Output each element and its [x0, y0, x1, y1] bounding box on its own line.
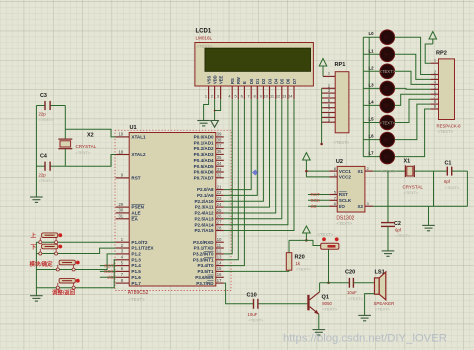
wire X1 right drop [433, 171, 435, 206]
svg-text:https://blog.csdn.net/DIY_lOVE: https://blog.csdn.net/DIY_lOVER [283, 333, 447, 345]
pin 24 P2.3/A11 U1 [216, 206, 224, 208]
power arrow RP1 [319, 59, 327, 67]
svg-text:<TEXT>: <TEXT> [438, 129, 454, 134]
pin 14 P3.4/T0 U1 [216, 265, 224, 267]
wire R20 bottom lead [288, 270, 290, 271]
svg-text:P0.4/AD4: P0.4/AD4 [194, 158, 214, 163]
pin 33 P0.6/AD6 U1 [216, 171, 224, 173]
svg-text:X2: X2 [87, 132, 94, 138]
wire U2 VCC stem [305, 160, 307, 177]
wire rail to ground [428, 206, 430, 225]
ground C2 [382, 251, 395, 256]
wire to VCC1 [306, 170, 329, 172]
wire button UP to P1.0 [36, 241, 115, 243]
svg-text:1: 1 [328, 71, 330, 76]
svg-text:15: 15 [217, 266, 222, 271]
svg-text:31: 31 [118, 214, 123, 219]
pin 13 P3.3/INT1 U1 [216, 259, 224, 261]
junction VEE-VDD [214, 110, 216, 112]
pin 5 RP2 [430, 88, 438, 90]
svg-text:P0.2/AD2: P0.2/AD2 [194, 146, 214, 151]
pin 37 P0.2/AD2 U1 [216, 148, 224, 150]
svg-text:<TEXT>: <TEXT> [348, 296, 364, 301]
svg-text:LM016L: LM016L [196, 35, 213, 40]
svg-text:6pf: 6pf [444, 179, 451, 184]
wire arrow stem R20 [305, 233, 307, 240]
LED L4 [363, 104, 380, 106]
svg-text:XTAL1: XTAL1 [131, 135, 146, 140]
svg-text:38: 38 [217, 138, 222, 143]
svg-text:L6: L6 [369, 134, 375, 139]
wire LCD D0 to P2.0 [224, 99, 251, 189]
LED L2 [363, 70, 380, 72]
pin 8 D1 LCD1 [256, 86, 258, 99]
svg-text:D5: D5 [280, 78, 285, 84]
wire L4 to RP2 pin 6 [395, 94, 431, 105]
wire crystal bottom [64, 149, 66, 167]
dashed selection box around U1 [115, 130, 231, 290]
svg-text:P3.0/RXD: P3.0/RXD [193, 240, 214, 245]
LED L3 [363, 87, 380, 89]
power arrow R20 [303, 226, 311, 233]
wire C3/C4 left bus [35, 106, 37, 198]
wire C20 to LS1 [353, 282, 374, 284]
pin 8 P1.7 U1 [116, 282, 130, 284]
svg-text:10uF: 10uF [347, 290, 357, 295]
svg-text:22: 22 [217, 190, 222, 195]
svg-text:P3.4/T0: P3.4/T0 [198, 263, 215, 268]
overline pin label [204, 251, 214, 253]
svg-text:<TEXT>: <TEXT> [39, 178, 55, 183]
pin 2 RP1 [322, 87, 336, 89]
pin 8 VCC1 U2 [329, 170, 337, 172]
svg-text:P3.7/RD: P3.7/RD [196, 281, 214, 286]
pin 1 RP1 [323, 75, 335, 77]
overline pin label [207, 274, 213, 276]
pin 19 XTAL1 U1 [116, 136, 130, 138]
pin 18 XTAL2 U1 [116, 154, 130, 156]
LCD screen [205, 48, 311, 71]
pin 26 P2.5/A13 U1 [216, 218, 224, 220]
svg-text:35: 35 [217, 155, 222, 160]
svg-text:<TEXT>: <TEXT> [128, 297, 145, 302]
pin 32 P0.7/AD7 U1 [216, 177, 224, 179]
wire L0 to RP2 pin 2 [395, 37, 431, 74]
svg-text:RP2: RP2 [436, 51, 447, 57]
pin 13 D6 LCD1 [287, 86, 289, 99]
pin 9 RP1 [322, 121, 336, 123]
svg-text:13: 13 [217, 255, 222, 260]
pin 10 D3 LCD1 [269, 86, 271, 99]
svg-text:<TEXT>: <TEXT> [76, 150, 92, 155]
svg-text:14: 14 [217, 260, 222, 265]
svg-text:C20: C20 [345, 270, 355, 276]
pin 12 D5 LCD1 [281, 86, 283, 99]
wire button DOWN to P1.1 [36, 248, 115, 253]
pin 34 P0.5/AD5 U1 [216, 165, 224, 167]
svg-text:39: 39 [217, 132, 222, 137]
svg-text:P3.6/WR: P3.6/WR [195, 275, 214, 280]
svg-text:EA: EA [131, 216, 138, 221]
wire LCD E to U1 [224, 99, 245, 265]
svg-text:P1.0/T2: P1.0/T2 [131, 240, 148, 245]
pin 30 ALE U1 [116, 212, 130, 214]
pin 38 P0.1/AD1 U1 [216, 142, 224, 144]
ground LS1 [358, 315, 371, 320]
pin 8 RP1 [322, 116, 336, 118]
ground Q1 [313, 330, 326, 335]
svg-text:P0.6/AD6: P0.6/AD6 [194, 170, 214, 175]
svg-text:23: 23 [217, 196, 222, 201]
svg-text:33: 33 [217, 167, 222, 172]
junction U2 VCC [305, 170, 308, 173]
svg-text:P1.3: P1.3 [131, 257, 141, 262]
pin 7 RP2 [430, 98, 438, 100]
svg-text:ALE: ALE [131, 211, 140, 216]
capacitor C1 [446, 167, 448, 176]
svg-text:8: 8 [254, 93, 256, 98]
pin 28 P2.7/A15 U1 [216, 230, 224, 232]
ground X1 rail [422, 225, 435, 230]
svg-text:模块/确定: 模块/确定 [30, 260, 54, 268]
pin 6 RP1 [322, 107, 336, 109]
svg-text:调整/返回: 调整/返回 [52, 289, 76, 297]
wire to VCC2 [306, 176, 329, 178]
svg-text:VCC2: VCC2 [339, 175, 352, 180]
LED L7 [363, 156, 380, 158]
wire LCD D1 to P2.1 [224, 99, 257, 195]
pin 22 P2.1/A9 U1 [216, 194, 224, 196]
svg-text:32: 32 [217, 173, 222, 178]
svg-text:C2: C2 [394, 221, 401, 227]
wire RP1 common bus [321, 88, 323, 144]
svg-text:6: 6 [241, 93, 243, 98]
svg-text:RESPACK-8: RESPACK-8 [437, 123, 462, 128]
wire R20 to preset [289, 240, 321, 245]
svg-text:D3: D3 [267, 78, 272, 84]
svg-text:P0.5/AD5: P0.5/AD5 [194, 164, 214, 169]
svg-text:<TEXT>: <TEXT> [322, 307, 338, 312]
svg-text:P1.2: P1.2 [131, 252, 141, 257]
svg-text:RST: RST [311, 192, 320, 197]
pin 3 VEE LCD1 [220, 86, 222, 99]
svg-text:3: 3 [217, 93, 219, 98]
svg-text:P0.1/AD1: P0.1/AD1 [194, 140, 214, 145]
pin 11 D4 LCD1 [275, 86, 277, 99]
pin 4 RS LCD1 [231, 86, 233, 99]
svg-text:P3.1/TXD: P3.1/TXD [194, 246, 215, 251]
svg-text:R20: R20 [295, 255, 305, 261]
svg-text:P2.0/A8: P2.0/A8 [197, 187, 214, 192]
wire preset to collector rail [328, 249, 330, 283]
wire R20 top lead [288, 240, 290, 252]
svg-text:C10: C10 [247, 293, 257, 299]
resistor pack RP2 RESPACK-8 [439, 59, 455, 120]
svg-text:24: 24 [217, 202, 222, 207]
svg-text:29: 29 [118, 202, 123, 207]
pin 5 P1.4 U1 [116, 265, 130, 267]
svg-text:<TEXT>: <TEXT> [318, 232, 334, 237]
svg-text:P0.7/AD7: P0.7/AD7 [194, 175, 214, 180]
svg-text:28: 28 [217, 225, 222, 230]
svg-text:P3.2/INT0: P3.2/INT0 [193, 252, 214, 257]
svg-text:SPEAKER: SPEAKER [374, 301, 395, 306]
button DOWN (xia) [42, 244, 58, 249]
svg-text:27: 27 [217, 220, 222, 225]
pin 5 RST U2 [329, 194, 337, 196]
svg-text:12: 12 [217, 249, 222, 254]
wire LS1 to ground [365, 294, 375, 316]
svg-text:<TEXT>: <TEXT> [375, 307, 391, 312]
junction VCC R20 rail [305, 239, 308, 242]
svg-text:P2.5/A13: P2.5/A13 [194, 216, 214, 221]
svg-text:25: 25 [217, 208, 222, 213]
pin 9 D2 LCD1 [262, 86, 264, 99]
svg-text:P0.0/AD0: P0.0/AD0 [194, 135, 214, 140]
LED L5 [363, 122, 380, 124]
svg-text:22p: 22p [39, 173, 47, 178]
svg-text:RS: RS [230, 78, 235, 84]
wire LCD D4 to P2.4 [224, 99, 276, 213]
svg-text:<TEXT>: <TEXT> [249, 318, 265, 323]
pin 9 RP2 [430, 108, 438, 110]
wire button ADJ to P1.3 [36, 260, 115, 288]
svg-text:P1.5: P1.5 [131, 269, 141, 274]
pin 7 RP1 [322, 112, 336, 114]
pin 31 EA U1 [116, 218, 130, 220]
svg-text:26: 26 [217, 214, 222, 219]
wire U2 X2 net rail [373, 205, 468, 207]
svg-text:RST: RST [339, 192, 348, 197]
wire net SCK at U2 [308, 199, 329, 201]
ground buttons [30, 296, 43, 301]
pin 1 P1.0/T2 U1 [116, 241, 130, 243]
wire net I/O at U1 [100, 276, 116, 278]
svg-text:E: E [242, 81, 247, 84]
svg-text:P1.1/T2EX: P1.1/T2EX [131, 246, 154, 251]
svg-text:VSS: VSS [206, 76, 211, 84]
svg-text:8050: 8050 [322, 301, 332, 306]
svg-text:D0: D0 [249, 78, 254, 84]
wire button gnd bus [35, 242, 37, 296]
svg-text:6pf: 6pf [395, 228, 402, 233]
svg-text:9: 9 [260, 93, 262, 98]
svg-text:上: 上 [31, 232, 37, 240]
svg-text:L0: L0 [369, 31, 375, 36]
pin 6 P1.5 U1 [116, 270, 130, 272]
pin 11 P3.1/TXD U1 [216, 247, 224, 249]
pin 4 RP2 [430, 83, 438, 85]
pin 5 RW LCD1 [237, 86, 239, 99]
wire X1 to C1 [414, 170, 447, 172]
wire P3.5/T1 to R20 [224, 270, 289, 272]
capacitor C10 [253, 299, 255, 309]
wire C1 right [452, 170, 468, 172]
svg-text:I/O: I/O [339, 204, 346, 209]
svg-text:P3.3/INT1: P3.3/INT1 [193, 257, 214, 262]
wire L5 to RP2 pin 7 [395, 99, 431, 122]
svg-text:<TEXT>: <TEXT> [296, 267, 312, 272]
overline PSEN [131, 204, 144, 206]
svg-text:下: 下 [31, 244, 37, 251]
ground arrow LCD VDD [211, 121, 219, 128]
ground X2 circuit [30, 197, 43, 202]
origin marker [252, 170, 258, 176]
wire C4 to XTAL2 [65, 155, 115, 167]
svg-text:<TEXT>: <TEXT> [380, 120, 396, 125]
mcu U1 body [129, 133, 216, 287]
pin 39 P0.0/AD0 U1 [216, 136, 224, 138]
svg-text:D1: D1 [255, 78, 260, 84]
svg-text:RW: RW [236, 77, 241, 84]
ground LCD VSS [197, 121, 210, 126]
pin 6 I/O U2 [329, 205, 337, 207]
wire net RST at U1 [100, 265, 116, 267]
svg-text:30: 30 [118, 208, 123, 213]
svg-text:<TEXT>: <TEXT> [336, 221, 352, 226]
svg-text:37: 37 [217, 143, 222, 148]
wire right drop [466, 171, 468, 206]
pin 2 X1 U2 [365, 170, 373, 172]
svg-text:Q1: Q1 [322, 295, 329, 301]
svg-text:D6: D6 [286, 78, 291, 84]
svg-text:X2: X2 [357, 204, 363, 209]
svg-text:VEE: VEE [218, 76, 223, 84]
resistor R20 [286, 253, 292, 271]
svg-text:19: 19 [118, 132, 123, 137]
svg-text:D4: D4 [274, 78, 279, 84]
svg-text:P2.6/A14: P2.6/A14 [194, 222, 214, 227]
pin 4 P1.3 U1 [116, 259, 130, 261]
svg-text:U1: U1 [130, 125, 137, 131]
svg-text:P1.4: P1.4 [131, 263, 141, 268]
capacitor C3 [36, 105, 45, 107]
button UP (shang) [42, 233, 58, 238]
capacitor C20 [348, 278, 350, 288]
svg-text:21: 21 [217, 184, 222, 189]
pin 9 RST U1 [116, 177, 130, 179]
svg-text:10: 10 [217, 237, 222, 242]
wire LCD RS to U1 [224, 99, 232, 254]
svg-text:I/O: I/O [107, 275, 114, 280]
pin 14 D7 LCD1 [293, 86, 295, 99]
wire L6 to RP2 pin 8 [395, 104, 431, 140]
svg-text:L1: L1 [369, 48, 375, 53]
svg-text:VCC1: VCC1 [339, 169, 352, 174]
pin 12 P3.2/INT0 U1 [216, 253, 224, 255]
svg-text:11: 11 [270, 93, 274, 98]
wire Q1 emitter down [318, 314, 320, 329]
junction collector rail [327, 282, 330, 285]
svg-text:L4: L4 [369, 99, 375, 104]
svg-text:36: 36 [217, 149, 222, 154]
pin 35 P0.4/AD4 U1 [216, 159, 224, 161]
svg-text:SCLK: SCLK [339, 198, 352, 203]
wire C2 drop [387, 171, 389, 223]
LED L1 [363, 53, 380, 55]
wire button MODE to P1.2 [36, 254, 115, 270]
svg-text:5: 5 [235, 93, 237, 98]
pin 6 RP2 [430, 93, 438, 95]
svg-text:<TEXT>: <TEXT> [39, 117, 55, 122]
svg-text:X1: X1 [404, 159, 411, 165]
svg-text:C3: C3 [40, 93, 47, 99]
pin 6 E LCD1 [243, 86, 245, 99]
pin 29 PSEN U1 [116, 206, 130, 208]
pin 36 P0.3/AD3 U1 [216, 153, 224, 155]
power arrow U2 [303, 153, 311, 160]
wire LCD D2 to P2.2 [224, 99, 264, 201]
svg-text:<TEXT>: <TEXT> [396, 233, 412, 238]
wire crystal top [64, 106, 66, 140]
wire LCD VSS to ground [204, 99, 209, 120]
svg-text:2: 2 [211, 93, 213, 98]
button ADJUST [59, 278, 75, 283]
overline EA [131, 215, 137, 217]
pin 4 RP1 [322, 97, 336, 99]
pin 7 SCLK U2 [329, 199, 337, 201]
svg-text:22p: 22p [39, 112, 47, 117]
wire X2 to XTAL1 [65, 129, 115, 137]
svg-text:P2.2/A10: P2.2/A10 [194, 199, 214, 204]
button MODE [59, 260, 75, 265]
svg-text:L5: L5 [369, 117, 375, 122]
pin 23 P2.2/A10 U1 [216, 200, 224, 202]
wire LCD D7 to P2.7 [224, 99, 294, 230]
node RP1 bus end [320, 143, 323, 146]
wire C2 to ground [387, 226, 389, 251]
svg-text:L3: L3 [369, 82, 375, 87]
wire LED bus B [368, 37, 370, 156]
wire net I/O at U2 [308, 205, 329, 207]
pin 3 RP1 [322, 92, 336, 94]
svg-text:12: 12 [276, 93, 280, 98]
pin 3 P1.2 U1 [116, 253, 130, 255]
svg-text:C4: C4 [40, 154, 47, 160]
pin 17 P3.7/RD U1 [216, 282, 224, 284]
svg-text:10uF: 10uF [248, 312, 258, 317]
wire LCD VDD down [214, 99, 216, 120]
wire LCD D5 to P2.5 [224, 99, 282, 219]
svg-text:SCK: SCK [311, 198, 321, 203]
wire Q1 collector up [319, 283, 321, 292]
svg-text:D7: D7 [292, 78, 297, 84]
pin 10 P3.0/RXD U1 [216, 241, 224, 243]
svg-text:<TEXT>: <TEXT> [445, 185, 461, 190]
pin 3 X2 U2 [365, 205, 373, 207]
wire RP1 pin1 to VCC [322, 66, 324, 76]
svg-text:AT89C52: AT89C52 [128, 290, 149, 296]
svg-text:VDD: VDD [212, 75, 217, 84]
pin 2 VDD LCD1 [214, 86, 216, 99]
svg-text:RST: RST [131, 176, 140, 181]
resistor pack RP1 [335, 72, 349, 133]
pin 21 P2.0/A8 U1 [216, 189, 224, 191]
pin 25 P2.4/A12 U1 [216, 212, 224, 214]
pin 16 P3.6/WR U1 [216, 276, 224, 278]
svg-text:L7: L7 [369, 151, 375, 156]
wire LCD D3 to P2.3 [224, 99, 270, 207]
svg-text:1: 1 [434, 57, 436, 62]
svg-text:<TEXT>: <TEXT> [404, 190, 420, 195]
svg-text:P0.3/AD3: P0.3/AD3 [194, 152, 214, 157]
wire C10 to Q1 base [258, 303, 307, 305]
wire L7 to RP2 pin 9 [395, 109, 431, 157]
wire arrow stem RP2 [432, 39, 434, 44]
wire L3 to RP2 pin 5 [395, 87, 431, 90]
svg-text:11: 11 [217, 243, 222, 248]
wire net SCK at U1 [100, 270, 116, 272]
